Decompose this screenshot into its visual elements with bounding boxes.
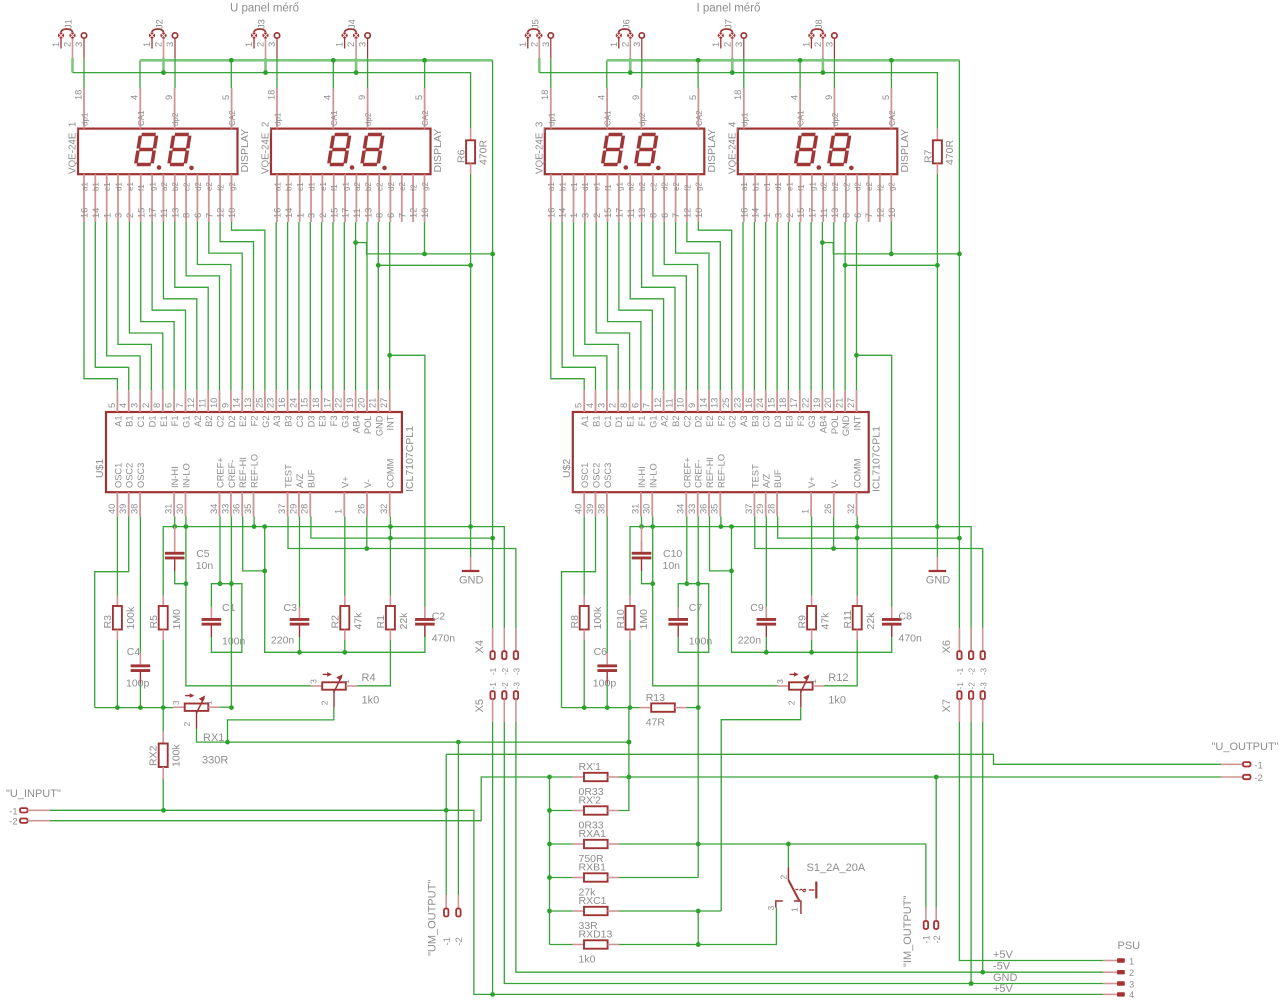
svg-text:dp1: dp1 (740, 112, 749, 126)
svg-text:24: 24 (755, 398, 765, 408)
pin g2 VQE-24E_4 (887, 174, 897, 222)
wire (551, 222, 584, 390)
wire (833, 516, 835, 548)
resistor R6 470R (456, 129, 490, 174)
junction (855, 536, 860, 541)
svg-text:e2: e2 (398, 182, 407, 191)
junction (809, 650, 814, 655)
svg-text:3: 3 (358, 42, 368, 47)
svg-text:3: 3 (308, 679, 318, 684)
svg-text:18: 18 (73, 90, 83, 100)
pin POL U$1 (356, 390, 373, 434)
pin CA2 VQE-24E_3 (688, 88, 704, 129)
pin A1 U$1 (107, 390, 124, 427)
svg-text:39: 39 (585, 504, 595, 514)
svg-text:9: 9 (687, 403, 697, 408)
wire (890, 222, 892, 254)
svg-text:4: 4 (790, 95, 800, 100)
svg-text:2: 2 (1129, 968, 1134, 978)
wire (390, 355, 425, 617)
svg-text:3: 3 (165, 42, 175, 47)
wire (141, 222, 174, 390)
junction (729, 524, 734, 529)
pin GND U$2 (835, 390, 852, 436)
svg-text:470n: 470n (899, 633, 923, 645)
junction (820, 240, 825, 245)
wire net +5V 2 (492, 722, 494, 994)
wire (936, 174, 938, 557)
svg-text:B1: B1 (125, 416, 135, 427)
pin dp1 VQE-24E_1 (73, 88, 89, 129)
wire (720, 516, 722, 526)
junction (696, 942, 701, 947)
IC U$1 ICL7107CPL1 (94, 412, 416, 492)
pin GND U$1 (368, 390, 385, 436)
pin A3 U$1 (266, 390, 283, 427)
pin D3 U$1 (300, 390, 317, 427)
wire (366, 222, 368, 390)
svg-text:R1: R1 (375, 615, 387, 629)
svg-text:1k0: 1k0 (362, 694, 380, 706)
connector J7 (711, 19, 747, 58)
svg-text:16: 16 (273, 208, 283, 218)
junction (547, 909, 552, 914)
pin B1 U$2 (585, 390, 602, 427)
wire net UINP1 (50, 810, 1103, 994)
svg-text:1: 1 (1129, 956, 1134, 966)
pin d2 VQE-24E_4 (853, 174, 863, 222)
svg-text:12: 12 (409, 208, 419, 218)
svg-text:D2: D2 (694, 416, 704, 428)
pin OSC2 U$1 (118, 463, 135, 517)
svg-text:2: 2 (592, 213, 602, 218)
svg-text:F1: F1 (170, 416, 180, 427)
svg-text:19: 19 (812, 398, 822, 408)
pin F1 U$1 (164, 390, 181, 426)
pin g2 VQE-24E_3 (694, 174, 704, 222)
pin c1 VQE-24E_2 (295, 174, 305, 222)
pin B2 U$1 (198, 390, 215, 427)
svg-text:R10: R10 (615, 609, 627, 628)
wire (811, 516, 813, 595)
wire (664, 222, 698, 390)
resistor R3 100k (102, 596, 137, 641)
pin A/Z U$1 (288, 473, 305, 516)
resistor RX'2 0R33 (573, 795, 619, 832)
svg-text:d1: d1 (581, 182, 590, 191)
svg-text:-3: -3 (979, 682, 988, 690)
svg-text:-1: -1 (9, 806, 17, 816)
svg-text:20: 20 (823, 398, 833, 408)
svg-text:17: 17 (615, 208, 625, 218)
pin D1 U$2 (608, 390, 625, 427)
svg-text:+5V: +5V (993, 949, 1014, 961)
svg-text:3: 3 (130, 403, 140, 408)
svg-text:E3: E3 (318, 416, 328, 427)
svg-text:3: 3 (766, 906, 776, 911)
pin g2 VQE-24E_1 (227, 174, 237, 222)
svg-text:INT: INT (386, 415, 396, 430)
wire (676, 222, 709, 390)
wire (424, 60, 426, 88)
wire (821, 222, 823, 390)
svg-text:20: 20 (356, 398, 366, 408)
svg-text:11: 11 (198, 398, 208, 408)
svg-text:-2: -2 (968, 667, 977, 675)
junction (980, 970, 985, 975)
wire (845, 264, 937, 266)
pin d1 VQE-24E_2 (307, 174, 317, 222)
pin G3 U$2 (801, 390, 818, 428)
svg-text:-1: -1 (956, 682, 965, 690)
svg-text:-2: -2 (932, 935, 942, 943)
svg-text:6: 6 (164, 403, 174, 408)
svg-text:G2: G2 (261, 416, 271, 428)
wire (445, 754, 447, 895)
wire net CREF2 (697, 708, 699, 878)
pin F2 U$2 (710, 390, 727, 426)
svg-text:G1: G1 (648, 416, 658, 428)
svg-text:E1: E1 (159, 416, 169, 427)
svg-text:3: 3 (114, 213, 124, 218)
svg-text:7: 7 (864, 213, 874, 218)
svg-text:3: 3 (580, 213, 590, 218)
svg-text:9: 9 (824, 95, 834, 100)
junction (889, 58, 894, 63)
pin b1 VQE-24E_4 (751, 174, 761, 222)
junction (262, 569, 267, 574)
svg-text:C2: C2 (682, 416, 692, 428)
svg-text:2: 2 (813, 42, 823, 47)
svg-text:1: 1 (609, 42, 619, 47)
wire (243, 516, 265, 571)
pin g1 VQE-24E_2 (341, 174, 351, 222)
svg-text:10: 10 (676, 398, 686, 408)
wire (550, 944, 573, 946)
pin CA2 VQE-24E_1 (221, 88, 237, 129)
svg-text:11: 11 (664, 398, 674, 408)
svg-text:7: 7 (397, 213, 407, 218)
wire (116, 516, 118, 595)
svg-text:F2: F2 (250, 416, 260, 427)
capacitor C7 100n (668, 602, 712, 648)
pin b2 VQE-24E_4 (830, 174, 840, 222)
pin e2 VQE-24E_3 (671, 174, 681, 222)
pin -2 UM_OUTPUT (454, 895, 464, 946)
svg-text:d2: d2 (387, 182, 396, 191)
wire net CA bus (139, 60, 141, 88)
svg-text:"U_OUTPUT": "U_OUTPUT" (1212, 741, 1279, 753)
wire (574, 222, 607, 390)
wire (152, 222, 185, 390)
pin e1 VQE-24E_2 (318, 174, 328, 222)
svg-text:100n: 100n (222, 636, 246, 648)
pin b2 VQE-24E_3 (637, 174, 647, 222)
wire (197, 222, 231, 390)
svg-text:26: 26 (823, 504, 833, 514)
svg-text:D3: D3 (773, 416, 783, 428)
wire (562, 707, 629, 709)
svg-text:6: 6 (660, 213, 670, 218)
svg-text:23: 23 (266, 398, 276, 408)
resistor R13 47R (640, 692, 686, 729)
wire (299, 516, 301, 607)
wire (982, 722, 984, 972)
wire (653, 516, 778, 685)
svg-text:14: 14 (558, 208, 568, 218)
wire (209, 222, 242, 390)
pin OSC3 U$2 (596, 463, 613, 517)
wire net busA (630, 527, 971, 652)
wire (355, 58, 358, 73)
resistor R5 1M0 (148, 596, 183, 641)
svg-text:16: 16 (739, 208, 749, 218)
junction (184, 581, 189, 586)
pin b1 VQE-24E_2 (284, 174, 294, 222)
svg-text:RXC1: RXC1 (579, 895, 607, 907)
wire net bus549 (288, 516, 516, 651)
svg-text:e1: e1 (126, 182, 135, 191)
svg-text:17: 17 (322, 398, 332, 408)
svg-text:-3: -3 (513, 667, 522, 675)
svg-text:1: 1 (569, 213, 579, 218)
svg-text:17: 17 (789, 398, 799, 408)
svg-text:1: 1 (334, 509, 344, 514)
svg-text:a1: a1 (273, 182, 282, 191)
svg-text:11: 11 (819, 208, 829, 218)
svg-text:f1: f1 (797, 184, 806, 191)
svg-text:DISPLAY: DISPLAY (432, 129, 444, 173)
wire (366, 516, 368, 548)
pin CA1 VQE-24E_1 (130, 88, 146, 129)
svg-text:A/Z: A/Z (295, 473, 305, 488)
wire (424, 222, 426, 254)
svg-text:J3: J3 (257, 19, 267, 29)
connector J3 (244, 19, 280, 58)
wire (343, 222, 345, 390)
connector X6 (941, 628, 988, 675)
svg-text:15: 15 (767, 398, 777, 408)
wire (629, 640, 631, 708)
pin CA2 VQE-24E_2 (414, 88, 430, 129)
svg-text:F1: F1 (637, 416, 647, 427)
svg-text:DISPLAY: DISPLAY (706, 129, 718, 173)
svg-text:14: 14 (232, 398, 242, 408)
junction (786, 842, 791, 847)
capacitor C1 100n (202, 602, 246, 648)
svg-text:R3: R3 (102, 615, 114, 629)
svg-text:31: 31 (630, 504, 640, 514)
svg-text:S1_2A_20A: S1_2A_20A (807, 862, 866, 874)
svg-text:2: 2 (154, 42, 164, 47)
svg-text:3: 3 (773, 213, 783, 218)
svg-text:7: 7 (642, 403, 652, 408)
svg-text:ICL7107CPL1: ICL7107CPL1 (871, 426, 883, 492)
pin b2 VQE-24E_1 (170, 174, 180, 222)
svg-text:15: 15 (300, 398, 310, 408)
svg-text:18: 18 (311, 398, 321, 408)
svg-text:d2: d2 (854, 182, 863, 191)
svg-text:G3: G3 (807, 416, 817, 428)
junction (263, 70, 268, 75)
svg-text:f2: f2 (217, 184, 226, 191)
svg-text:A1: A1 (113, 416, 123, 427)
wire (619, 776, 629, 778)
svg-text:15: 15 (136, 208, 146, 218)
pin CREF+ U$1 (209, 457, 226, 516)
pin d2 VQE-24E_2 (386, 174, 396, 222)
svg-text:C1: C1 (222, 602, 236, 614)
wire (890, 60, 892, 88)
svg-text:40: 40 (574, 504, 584, 514)
wire (833, 58, 835, 88)
svg-text:A3: A3 (272, 416, 282, 427)
wire net common bus (538, 58, 541, 73)
svg-text:25: 25 (254, 398, 264, 408)
pin INT U$1 (379, 390, 396, 430)
pin A2 U$2 (653, 390, 670, 427)
svg-text:-1: -1 (922, 935, 932, 943)
wire (698, 222, 731, 390)
junction (696, 842, 701, 847)
pin f2 VQE-24E_1 (216, 174, 226, 222)
wire (230, 60, 232, 88)
svg-text:e2: e2 (205, 182, 214, 191)
svg-text:3: 3 (307, 213, 317, 218)
pin TEST U$2 (744, 464, 761, 516)
pin OSC3 U$1 (130, 463, 147, 517)
svg-text:X4: X4 (474, 640, 486, 653)
pin a2 VQE-24E_3 (626, 174, 636, 222)
trimmer R4 1k0 (308, 672, 357, 708)
svg-text:2: 2 (786, 700, 796, 705)
svg-text:-2: -2 (501, 682, 510, 690)
resistor RXD13 1k0 (573, 929, 619, 966)
svg-text:3: 3 (596, 403, 606, 408)
svg-text:6: 6 (853, 213, 863, 218)
svg-text:11: 11 (159, 208, 169, 218)
svg-text:1k0: 1k0 (579, 953, 596, 965)
pin c1 VQE-24E_3 (569, 174, 579, 222)
wire (606, 683, 608, 708)
wire (653, 222, 686, 390)
wire (220, 222, 253, 390)
pin G2 U$2 (721, 390, 738, 428)
wire (298, 222, 300, 390)
svg-text:IN-LO: IN-LO (182, 463, 192, 488)
wire (776, 222, 778, 390)
connector J5 (518, 19, 554, 58)
wire (562, 516, 596, 707)
resistor RX2 100k (148, 732, 183, 780)
svg-text:1: 1 (142, 42, 152, 47)
junction (354, 70, 359, 75)
wire (856, 222, 858, 390)
pin INT U$2 (846, 390, 863, 430)
svg-text:e2: e2 (865, 182, 874, 191)
wire (95, 222, 128, 390)
svg-text:40: 40 (107, 504, 117, 514)
pin f1 VQE-24E_2 (329, 174, 339, 222)
display VQE-24E_4 (727, 121, 911, 174)
display VQE-24E_1 (68, 122, 252, 174)
svg-text:1: 1 (762, 213, 772, 218)
svg-text:d1: d1 (114, 182, 123, 191)
pin G1 U$1 (175, 390, 192, 428)
svg-text:10n: 10n (663, 560, 681, 572)
svg-text:1: 1 (295, 213, 305, 218)
junction (342, 650, 347, 655)
wire (822, 58, 825, 73)
svg-text:21: 21 (835, 398, 845, 408)
pin G3 U$1 (334, 390, 351, 428)
pin BUF U$1 (300, 469, 317, 516)
capacitor C5 10n (165, 541, 213, 572)
pin OSC1 U$1 (107, 463, 124, 517)
wire (378, 264, 470, 266)
junction (115, 705, 120, 710)
wire net busA (163, 527, 504, 652)
wire (174, 58, 176, 88)
pin c2 VQE-24E_2 (375, 174, 385, 222)
pin g2 VQE-24E_2 (420, 174, 430, 222)
pin AB4 U$2 (812, 390, 829, 433)
junction (843, 263, 848, 268)
svg-text:2: 2 (125, 213, 135, 218)
svg-text:c2: c2 (649, 182, 658, 191)
svg-text:9: 9 (631, 95, 641, 100)
svg-text:e2: e2 (672, 182, 681, 191)
pin COMM U$1 (379, 459, 396, 517)
connector X7 (941, 682, 988, 722)
wire net UOUT2 (629, 776, 1221, 778)
svg-text:22: 22 (334, 398, 344, 408)
svg-text:f2: f2 (876, 184, 885, 191)
wire (220, 706, 232, 708)
svg-text:4: 4 (1129, 990, 1134, 1000)
wire (687, 222, 720, 390)
wire net bus549 (755, 516, 983, 651)
svg-text:b2: b2 (638, 182, 647, 191)
pin G1 U$2 (642, 390, 659, 428)
wire (629, 58, 632, 73)
pin AB4 U$1 (345, 390, 362, 433)
wire (175, 570, 186, 583)
svg-text:15: 15 (329, 208, 339, 218)
pin G2 U$1 (254, 390, 271, 428)
pin D2 U$1 (220, 390, 237, 427)
wire (228, 708, 334, 743)
pin REF-LO U$2 (710, 454, 727, 516)
svg-text:d1: d1 (774, 182, 783, 191)
svg-text:-2: -2 (501, 667, 510, 675)
svg-text:5: 5 (414, 95, 424, 100)
svg-text:+5V: +5V (993, 983, 1014, 995)
svg-text:d2: d2 (661, 182, 670, 191)
wire (550, 843, 573, 845)
svg-text:27: 27 (846, 398, 856, 408)
svg-text:30: 30 (175, 504, 185, 514)
svg-text:dp1: dp1 (274, 112, 283, 126)
svg-text:16: 16 (80, 208, 90, 218)
svg-text:12: 12 (653, 398, 663, 408)
svg-text:F3: F3 (329, 416, 339, 427)
pin dp2 VQE-24E_4 (824, 88, 840, 129)
pin CA1 VQE-24E_4 (790, 88, 806, 129)
wire (743, 58, 745, 88)
pin d1 VQE-24E_3 (580, 174, 590, 222)
pin A3 U$2 (732, 390, 749, 427)
